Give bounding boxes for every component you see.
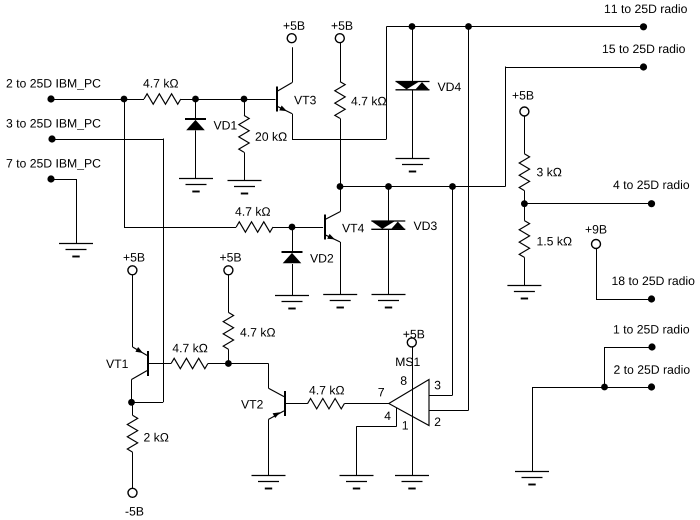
node 20k junction bbox=[241, 96, 248, 103]
node 11 to 25D radio terminal bbox=[605, 4, 687, 30]
wire bbox=[149, 363, 172, 365]
wire bbox=[132, 402, 164, 404]
power -5B bbox=[126, 488, 144, 515]
node VT1 collector junction bbox=[128, 399, 135, 406]
power +5B (MS1) bbox=[403, 330, 424, 347]
node 2 to 25D IBM_PC terminal bbox=[7, 79, 101, 103]
node 18 to 25D radio terminal bbox=[612, 276, 694, 302]
wire bbox=[131, 380, 133, 403]
pin 4 label bbox=[385, 412, 391, 420]
node VD4 top bbox=[409, 23, 416, 30]
power +5B (VT1) bbox=[124, 253, 145, 275]
ground bbox=[396, 159, 430, 172]
op-amp MS1 triangle bbox=[389, 358, 429, 426]
power +5B (divider) bbox=[513, 91, 534, 116]
wire bbox=[124, 227, 236, 229]
diode pair VD3 bbox=[371, 187, 436, 295]
wire pin8-pin1 power bbox=[412, 347, 414, 476]
wire bbox=[208, 363, 269, 365]
wire bbox=[386, 27, 388, 140]
ground bbox=[323, 295, 357, 308]
node 7 to 25D IBM_PC terminal bbox=[7, 159, 101, 183]
transistor VT4 bbox=[325, 212, 364, 242]
power +5B (4.7k) bbox=[332, 21, 353, 42]
ground bbox=[340, 476, 374, 489]
node pin3 riser top bbox=[449, 183, 456, 190]
ground bbox=[507, 286, 541, 299]
resistor 4.7 kOhm (VT2 base) bbox=[308, 386, 345, 409]
resistor 4.7 kOhm (VT4 base) bbox=[235, 207, 273, 232]
wire bbox=[76, 179, 78, 243]
wire bbox=[292, 47, 294, 82]
resistor 20 kOhm bbox=[239, 99, 287, 181]
wire bbox=[344, 403, 388, 405]
resistor 3 kOhm bbox=[519, 116, 561, 204]
ground bbox=[395, 476, 429, 489]
wire 1 to 25D bbox=[605, 347, 653, 387]
node VD1 junction bbox=[192, 96, 199, 103]
node VT4 collector bbox=[337, 183, 344, 190]
resistor 4.7 kOhm (VT3 base) bbox=[143, 79, 181, 105]
wire bbox=[292, 114, 294, 139]
wire bbox=[163, 139, 165, 403]
node 1-2 junction bbox=[601, 384, 608, 391]
wire 2 to 25D bbox=[532, 387, 652, 389]
node 1 to 25D radio terminal bbox=[614, 325, 689, 351]
ground bbox=[59, 244, 93, 257]
wire pin 4 bbox=[357, 408, 397, 476]
transistor VT1 bbox=[106, 275, 148, 380]
wire bbox=[181, 99, 276, 101]
pin 2 label bbox=[435, 418, 441, 427]
wire bbox=[268, 419, 270, 475]
ground bbox=[252, 476, 286, 489]
ground bbox=[228, 181, 262, 194]
wire bbox=[273, 227, 323, 229]
transistor VT3 bbox=[277, 83, 316, 114]
node divider junction bbox=[521, 200, 528, 207]
wire bbox=[340, 242, 342, 295]
wire 11 to 25D rail bbox=[387, 26, 644, 28]
node 2 to 25D radio terminal bbox=[614, 365, 690, 391]
resistor 1.5 kOhm bbox=[519, 204, 571, 285]
wire 15 to 25D bbox=[506, 67, 644, 187]
pin 3 label bbox=[435, 381, 441, 390]
node 3 to 25D IBM_PC terminal bbox=[7, 119, 101, 143]
wire bbox=[268, 364, 270, 389]
node pin2 riser top bbox=[465, 23, 472, 30]
ground bbox=[515, 472, 549, 485]
wire mid rail bbox=[340, 186, 506, 188]
node VD3 top bbox=[385, 183, 392, 190]
wire bbox=[292, 139, 387, 141]
pin 8 label bbox=[401, 376, 407, 385]
wire bbox=[52, 139, 163, 141]
diode VD1 bbox=[185, 99, 237, 179]
pin 1 label bbox=[403, 421, 408, 429]
wire pin 3 bbox=[429, 187, 453, 396]
wire bbox=[532, 387, 534, 472]
wire bbox=[524, 203, 651, 205]
wire bbox=[51, 179, 76, 181]
wire bbox=[340, 187, 342, 212]
node 15 to 25D radio terminal bbox=[603, 44, 685, 70]
wire pin 2 bbox=[429, 27, 469, 411]
node base junction bbox=[225, 360, 232, 367]
power +5B (4.7k VT1) bbox=[220, 253, 241, 275]
transistor VT2 bbox=[241, 388, 285, 419]
node VD2 junction bbox=[289, 224, 296, 231]
node junction on pin-2 net bbox=[121, 96, 128, 103]
power +9B bbox=[586, 225, 607, 249]
ground bbox=[372, 295, 406, 308]
ground bbox=[275, 296, 309, 309]
wire bbox=[124, 99, 126, 227]
diode VD2 bbox=[282, 227, 334, 295]
wire bbox=[286, 403, 308, 405]
node 4 to 25D radio terminal bbox=[613, 180, 689, 207]
power +5B (VT3) bbox=[284, 21, 305, 42]
resistor 4.7 kOhm (pull-up) bbox=[335, 43, 386, 188]
pin 7 label bbox=[378, 388, 384, 396]
wire bbox=[596, 248, 652, 299]
wire bbox=[51, 99, 144, 101]
resistor 4.7 kOhm (vertical) bbox=[223, 275, 275, 364]
diode pair VD4 bbox=[396, 27, 461, 159]
resistor 2 kOhm bbox=[127, 402, 168, 488]
resistor 4.7 kOhm (VT1 base) bbox=[171, 344, 208, 369]
ground bbox=[179, 179, 213, 192]
